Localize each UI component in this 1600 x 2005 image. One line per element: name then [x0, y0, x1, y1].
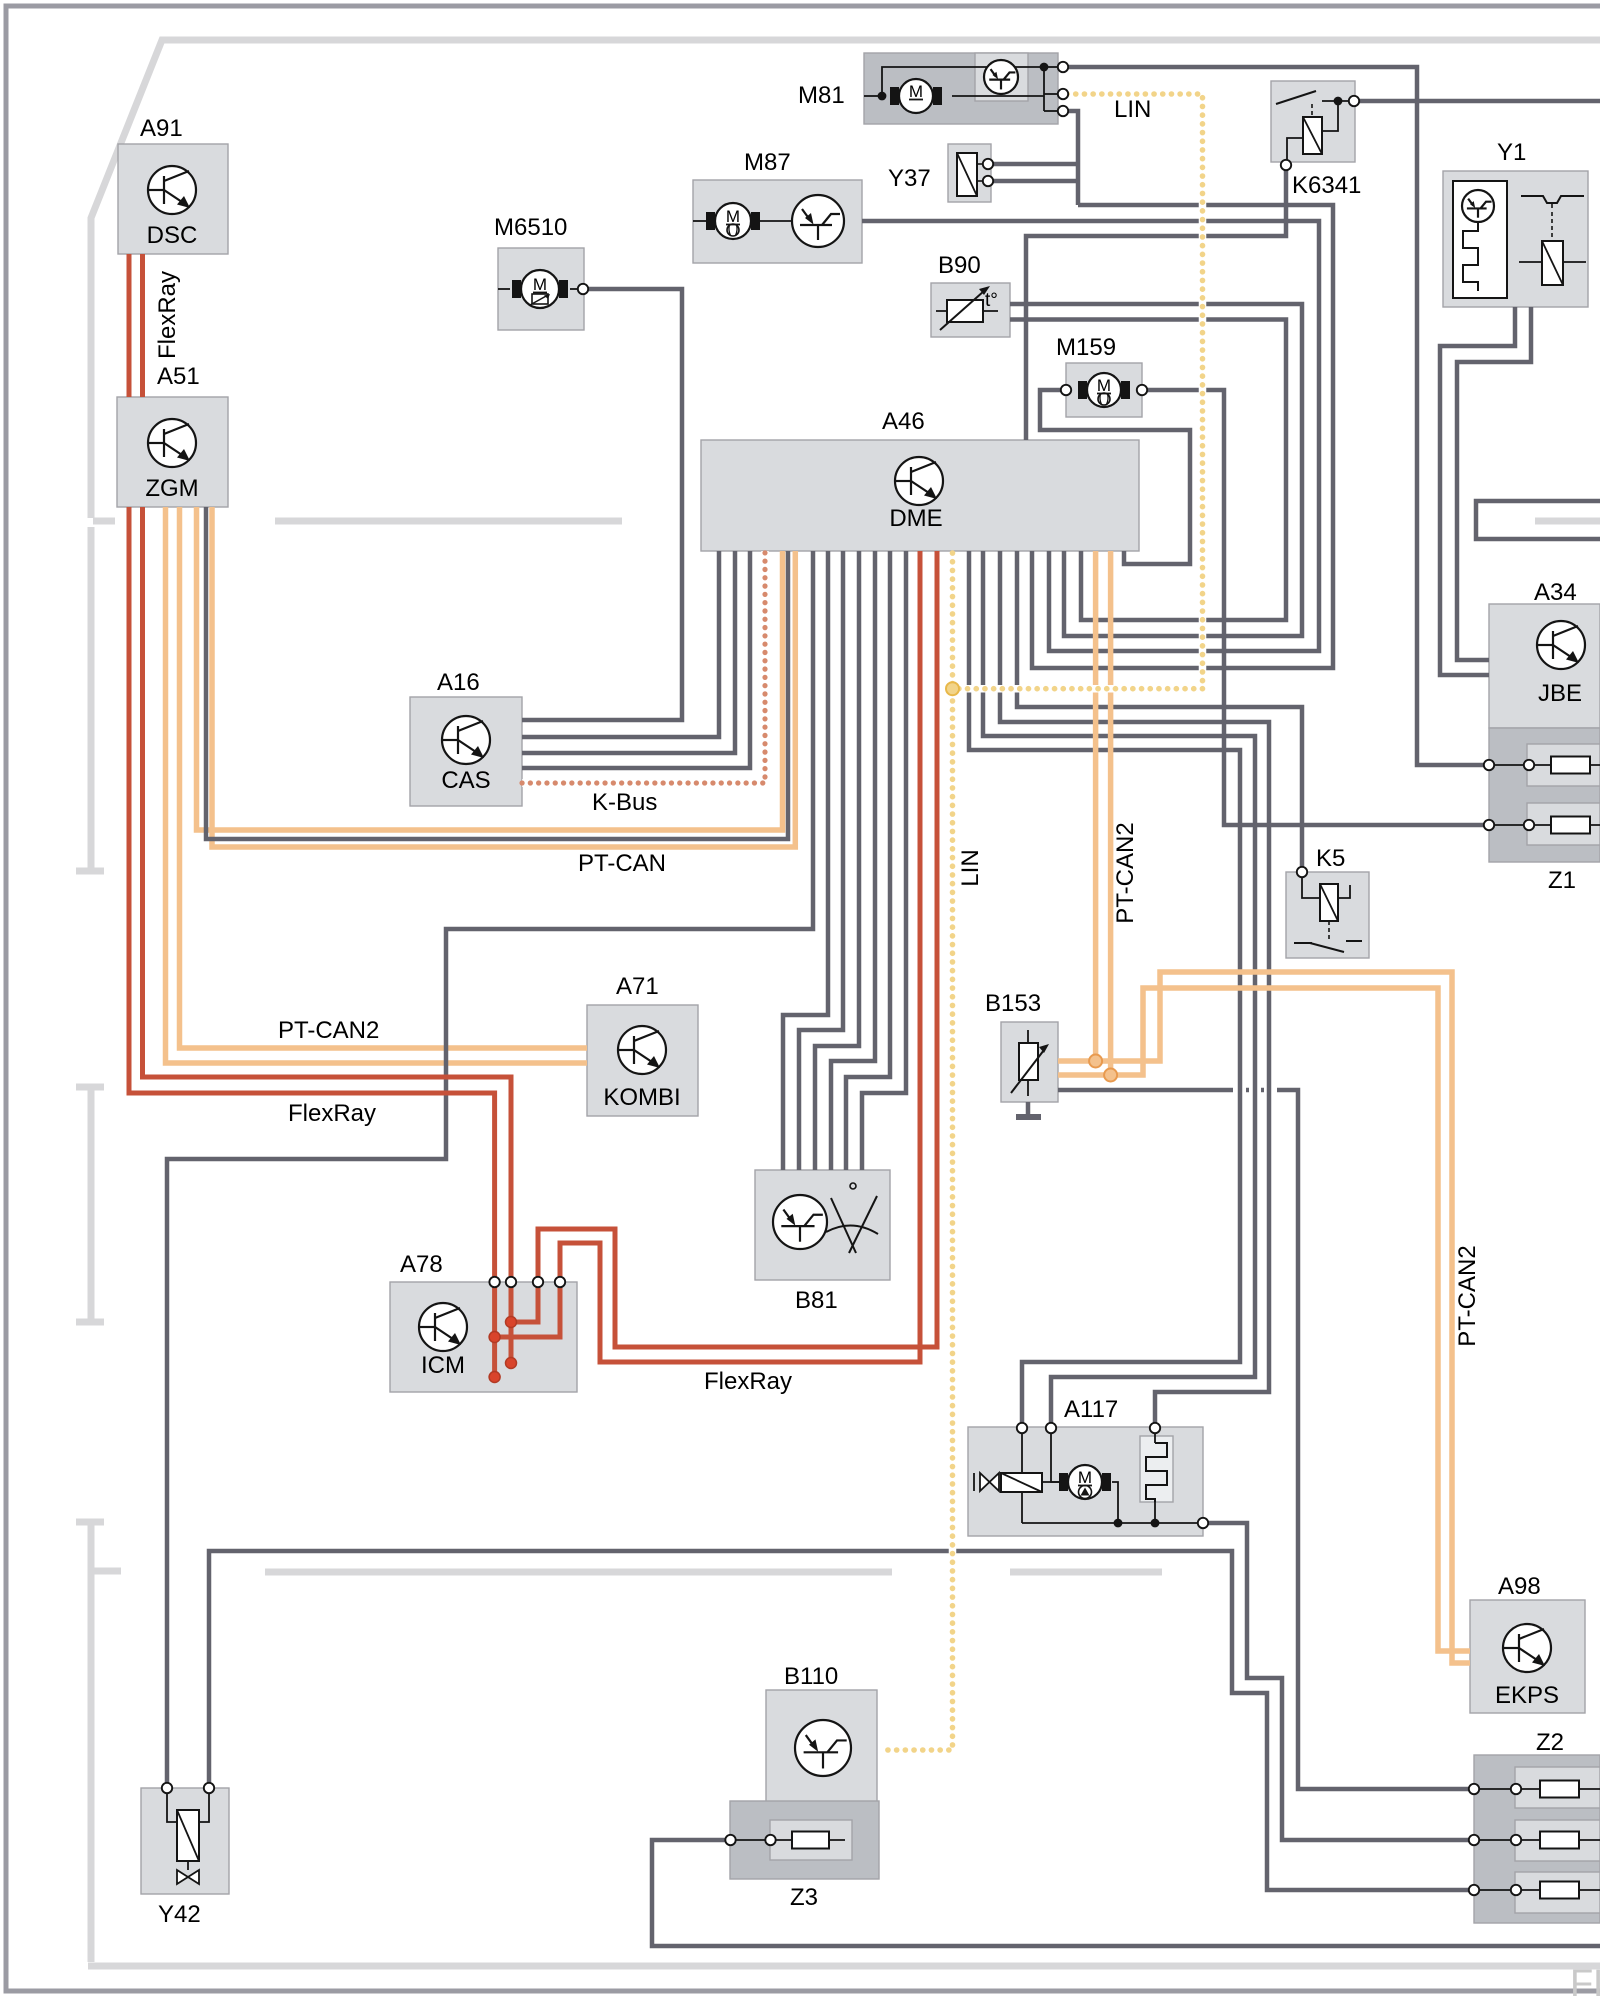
svg-text:DME: DME	[889, 505, 942, 532]
fuse Z3	[735, 1839, 845, 1841]
svg-text:FlexRay: FlexRay	[154, 271, 181, 359]
relay K5 internals	[1302, 877, 1320, 898]
ECU A98 EKPS symbol	[1503, 1624, 1551, 1672]
unit A117 box	[968, 1427, 1203, 1536]
svg-text:K-Bus: K-Bus	[592, 789, 657, 816]
svg-text:M: M	[1097, 376, 1111, 395]
A117 resistor sub-panel	[1140, 1436, 1173, 1502]
motor M6510	[498, 288, 510, 290]
ECU A34 JBE symbol	[1537, 621, 1585, 669]
valve Y37 relay coil	[957, 153, 977, 196]
wire DME to Y42 terminal1 (long route)	[167, 551, 813, 1785]
motor M87 symbol	[706, 212, 715, 230]
frame section ticks	[76, 521, 121, 1571]
sensor B90 box	[931, 283, 1010, 337]
valve Y42 box	[141, 1788, 229, 1894]
svg-text:M: M	[909, 82, 923, 101]
relay K6341 internals	[1303, 117, 1322, 154]
svg-text:Z1: Z1	[1548, 867, 1576, 894]
sensor B81 box	[755, 1170, 890, 1280]
svg-text:ZGM: ZGM	[145, 475, 198, 502]
wire DME to A117 terminal3	[1000, 551, 1269, 1424]
control unit A34 JBE box	[1489, 604, 1600, 728]
svg-text:A98: A98	[1498, 1573, 1541, 1600]
wire DME to A117 terminal2	[983, 551, 1255, 1424]
sensor B153 internals	[1027, 1030, 1029, 1043]
valve Y42 internals	[167, 1792, 177, 1822]
ECU A51 ZGM symbol	[148, 419, 196, 467]
svg-text:A46: A46	[882, 408, 925, 435]
svg-text:M: M	[533, 275, 547, 294]
ECU A46 DME symbol	[895, 457, 943, 505]
svg-text:B110: B110	[784, 1663, 838, 1690]
motor M159 symbol	[1078, 381, 1087, 399]
motor M81 symbol	[890, 87, 899, 105]
svg-text:PT-CAN2: PT-CAN2	[1112, 822, 1139, 923]
svg-text:DSC: DSC	[147, 222, 198, 249]
LIN junction node	[946, 682, 959, 695]
fuse Z2 row2	[1479, 1839, 1600, 1841]
motor unit M87 box	[693, 180, 862, 263]
wire DME to Y37 lower terminal	[1032, 205, 1333, 668]
svg-text:B153: B153	[985, 990, 1041, 1017]
ICM FlexRay junction dots	[489, 1332, 500, 1343]
valve Y37 box	[948, 144, 991, 202]
fuse Z1-2	[1551, 817, 1590, 834]
fuse Z2-3	[1540, 1882, 1579, 1899]
wire DME to M87	[862, 221, 1319, 651]
relay K5 box	[1286, 872, 1369, 958]
fuse Z1 row1	[1494, 764, 1600, 766]
control unit A71 KOMBI box	[587, 1005, 698, 1116]
fuse Z1 row2	[1494, 824, 1600, 826]
svg-text:FlexRay: FlexRay	[288, 1100, 376, 1127]
svg-text:FlexRay: FlexRay	[704, 1368, 792, 1395]
wire DME to K5 relay	[1017, 551, 1302, 868]
transistor M81 symbol	[984, 60, 1018, 94]
motor unit M81 internals	[864, 95, 880, 97]
wire K6341 to right edge	[1358, 99, 1600, 104]
svg-text:B81: B81	[795, 1287, 838, 1314]
wire B153 to fuse Z2 row1	[1058, 1088, 1233, 1093]
wire Y1 right to JBE	[1457, 307, 1531, 660]
wires DME to B81 (6x)	[783, 551, 828, 1170]
PT-CAN2 junction dots at B153	[1089, 1055, 1102, 1068]
terminals	[578, 284, 588, 294]
relay K6341 box	[1271, 81, 1355, 162]
fuse Z2 row3	[1479, 1889, 1600, 1891]
control unit A46 DME box	[701, 440, 1139, 551]
FlexRay bus ICM terminal3 to DME	[538, 551, 937, 1347]
svg-text:M87: M87	[744, 149, 791, 176]
svg-text:A117: A117	[1064, 1396, 1118, 1423]
Z2 fuse row panels	[1515, 1767, 1600, 1808]
svg-text:A78: A78	[400, 1251, 443, 1278]
control unit A91 DSC box	[118, 144, 228, 254]
motor A117 symbol	[1059, 1473, 1068, 1491]
PT-CAN2 bus to EKPS (inner)	[1111, 988, 1470, 1651]
fuse Z1-1	[1551, 757, 1590, 774]
A117 resistor zigzag	[1146, 1443, 1167, 1502]
ECU A78 ICM symbol	[419, 1303, 467, 1351]
svg-text:M81: M81	[798, 82, 845, 109]
wire M81 terminal1 to fuse Z1 row1	[1067, 67, 1485, 765]
control unit A51 ZGM box	[117, 397, 228, 507]
control unit A16 CAS box	[410, 697, 522, 806]
svg-text:KOMBI: KOMBI	[603, 1084, 680, 1111]
Y1 inner white panel	[1453, 181, 1507, 298]
wire M159 right terminal to fuse Z1 row2	[1146, 390, 1485, 825]
ECU A16 CAS symbol	[442, 716, 490, 764]
wire DME to A117 terminal1	[969, 551, 1240, 1424]
wire DME to B90 upper terminal	[1010, 304, 1302, 636]
wire A117 bottom terminal to fuse Z2 row2	[1208, 1523, 1470, 1840]
unit A117 internals	[1021, 1432, 1023, 1474]
sensor B153 box	[1001, 1022, 1058, 1102]
transistor M87 symbol	[792, 195, 844, 247]
FlexRay bus ICM terminal4 to DME	[560, 551, 920, 1362]
svg-text:JBE: JBE	[1538, 680, 1582, 707]
valve unit Y1 box	[1443, 171, 1588, 307]
K-Bus dotted wire CAS to DME	[522, 551, 765, 783]
PT-CAN bus wire ZGM to DME (pair)	[197, 507, 783, 830]
wire Y42 terminal2 to fuse Z2 row3	[209, 1551, 1470, 1890]
ECU A71 KOMBI symbol	[618, 1026, 666, 1074]
svg-text:K6341: K6341	[1292, 172, 1361, 199]
motor M159 box	[1066, 363, 1142, 417]
svg-text:Z3: Z3	[790, 1884, 818, 1911]
FlexRay bus ZGM to ICM terminal2	[143, 507, 512, 1278]
B153 ground bar	[1016, 1114, 1041, 1120]
sensor B110 box	[766, 1690, 877, 1802]
svg-text:LIN: LIN	[957, 849, 984, 886]
wire K6341 relay to DME top	[1026, 168, 1286, 440]
wire M81 terminal3 down to Y37 node	[1063, 111, 1078, 205]
fuse Z2-2	[1540, 1832, 1579, 1849]
svg-text:A91: A91	[140, 115, 183, 142]
svg-text:FL: FL	[1570, 1963, 1600, 2000]
svg-text:PT-CAN2: PT-CAN2	[278, 1017, 379, 1044]
LIN dotted wire M81 to junction	[1067, 94, 1203, 689]
svg-text:M: M	[1078, 1468, 1092, 1487]
wire CAS pin3 to DME	[522, 551, 735, 753]
wire CAS pin4 to DME	[522, 551, 750, 768]
fuse block Z1 box	[1489, 728, 1600, 862]
fuse Z2-1	[1540, 1781, 1579, 1798]
FlexRay bus ZGM to ICM terminal1	[129, 507, 495, 1278]
svg-text:M: M	[726, 207, 740, 226]
control unit A78 ICM box	[390, 1282, 577, 1392]
svg-text:B90: B90	[938, 252, 981, 279]
wire Y1 left to JBE	[1440, 307, 1515, 675]
wire ZGM gray pin to DME	[206, 507, 788, 839]
transistor Y1 symbol	[1462, 190, 1494, 222]
wire fuse Z3 to bottom rail	[652, 1840, 1600, 1946]
PT-CAN2 bus wire ZGM to KOMBI (pair)	[166, 507, 796, 1063]
PT-CAN2 DME to B153 junction (pair)	[1093, 551, 1099, 1061]
motor unit M87	[693, 220, 706, 222]
wire U-turn at right edge	[1476, 501, 1600, 539]
motor unit M81 box	[864, 53, 1058, 124]
wire M6510 to CAS pin1	[522, 289, 682, 720]
svg-text:PT-CAN: PT-CAN	[578, 850, 666, 877]
svg-text:EKPS: EKPS	[1495, 1682, 1559, 1709]
Z1 fuse row panels	[1527, 744, 1600, 786]
PT-CAN2 B153 terminals	[1058, 1058, 1096, 1064]
svg-text:Y42: Y42	[158, 1901, 201, 1928]
light separator lines	[265, 521, 1600, 1572]
svg-text:A51: A51	[157, 363, 200, 390]
fuse Z2 row1	[1479, 1788, 1600, 1790]
Z3 fuse row panel	[770, 1820, 852, 1860]
svg-text:K5: K5	[1316, 845, 1345, 872]
FlexRay bus DSC to ZGM (pair)	[127, 254, 132, 397]
Y37 terminal stubs	[991, 162, 1078, 167]
wire DME to M159 left terminal	[1040, 390, 1190, 564]
svg-text:A71: A71	[616, 973, 659, 1000]
motor M6510 box	[498, 248, 584, 330]
ECU A91 DSC symbol	[148, 166, 196, 214]
FlexRay inside ICM	[492, 1286, 497, 1377]
svg-text:M159: M159	[1056, 334, 1116, 361]
PT-CAN2 bus to EKPS (outer)	[1096, 972, 1470, 1663]
wire DME to B90 lower terminal	[1010, 320, 1286, 621]
fuse block Z2 box	[1474, 1755, 1600, 1923]
svg-text:PT-CAN2: PT-CAN2	[1454, 1245, 1481, 1346]
svg-text:Y1: Y1	[1497, 139, 1526, 166]
svg-text:A16: A16	[437, 669, 480, 696]
sensor B90 internals	[936, 310, 998, 312]
motor M6510 symbol	[512, 280, 521, 298]
svg-text:LIN: LIN	[1114, 96, 1151, 123]
wire CAS pin2 to DME	[522, 551, 719, 737]
control unit A98 EKPS box	[1470, 1600, 1585, 1713]
svg-text:M6510: M6510	[494, 214, 567, 241]
svg-text:ICM: ICM	[421, 1352, 465, 1379]
transistor B81 symbol	[773, 1195, 827, 1249]
svg-text:Z2: Z2	[1536, 1729, 1564, 1756]
svg-text:CAS: CAS	[441, 767, 490, 794]
transistor B110 symbol	[795, 1720, 851, 1776]
B153 ground stub	[1026, 1102, 1031, 1117]
svg-text:t°: t°	[985, 290, 998, 311]
fuse block Z3 box	[730, 1801, 879, 1879]
svg-text:Y37: Y37	[888, 165, 931, 192]
A117 solenoid valve	[980, 1473, 999, 1491]
svg-text:A34: A34	[1534, 579, 1577, 606]
M81 transistor sub-box	[975, 53, 1028, 101]
